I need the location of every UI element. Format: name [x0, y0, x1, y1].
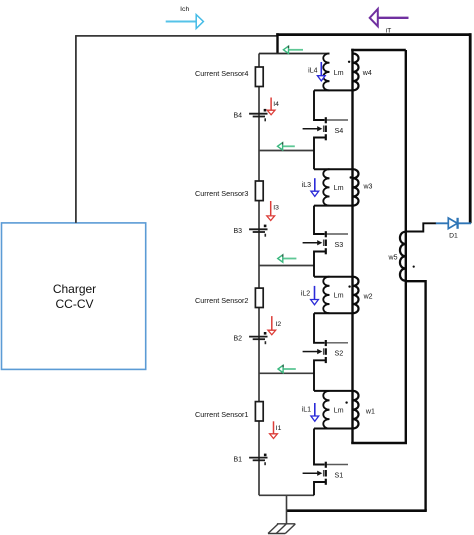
svg-text:w1: w1 — [365, 408, 375, 415]
transistor S3 gate/body arrow — [303, 240, 323, 245]
arrow iL3 magnetizing current (blue, down) — [311, 178, 319, 196]
wire module2 top node — [314, 276, 353, 278]
transistor S2 gate bar — [323, 348, 325, 355]
svg-text:Lm: Lm — [334, 293, 344, 300]
arrow iL1 magnetizing current (blue, down) — [311, 403, 319, 421]
wire top tap B4+ to Lm4 — [259, 53, 330, 55]
wire bottom ground rail — [287, 509, 427, 512]
wire transformer primary bus (w4..w1 stack) — [351, 49, 353, 443]
transistor S3 channel bar — [325, 231, 327, 254]
battery B3 — [249, 225, 267, 237]
transistor S1 gate/body arrow — [303, 471, 323, 476]
wire w5 bottom to ground drop — [406, 281, 426, 511]
svg-text:Lm: Lm — [334, 70, 344, 77]
transistor S2 channel bar — [325, 340, 327, 363]
arrow I3 cell current (red) — [267, 201, 275, 221]
current sensor CS3 — [255, 181, 263, 201]
transistor S1 drain stub — [327, 464, 348, 466]
wire S4 drain lead — [314, 90, 325, 120]
transistor S2 gate/body arrow — [303, 349, 323, 354]
wire top rail thin left segment — [75, 35, 277, 37]
arrow module1 branch current (green, points left) — [278, 365, 296, 373]
transistor S4 gate bar — [323, 126, 325, 133]
arrow module3 branch current (green, points left) — [278, 142, 295, 150]
ground symbol — [268, 524, 295, 534]
arrow iL2 magnetizing current (blue, down) — [311, 286, 319, 305]
svg-text:w4: w4 — [362, 70, 372, 77]
wire battery stack bus — [258, 54, 260, 496]
svg-text:iL3: iL3 — [302, 182, 311, 189]
svg-text:I3: I3 — [273, 204, 279, 211]
battery B4 — [249, 109, 267, 121]
polarity dot w1 — [345, 401, 347, 403]
current sensor CS2 — [255, 288, 263, 307]
wire Lm1 bottom to w1 bottom — [314, 428, 353, 430]
wire drop from top rail to battery top tap — [276, 33, 278, 53]
arrow module2 branch current (green, points left) — [278, 255, 297, 263]
svg-text:Charger: Charger — [53, 282, 96, 296]
polarity dot w4 — [348, 61, 350, 63]
wire w5 branch vertical upper — [405, 50, 407, 232]
svg-text:S3: S3 — [335, 240, 344, 249]
wire bottom rail battery- to S1 source — [259, 494, 314, 496]
winding w5 loops — [400, 232, 406, 281]
svg-text:I1: I1 — [276, 425, 282, 432]
svg-text:Current Sensor1: Current Sensor1 — [195, 410, 249, 419]
wire module1 top node — [314, 390, 353, 392]
wire w5 core line — [405, 232, 407, 443]
svg-text:Ich: Ich — [180, 6, 189, 13]
svg-text:Current Sensor2: Current Sensor2 — [195, 296, 249, 305]
wire top of winding bus to w5 branch — [351, 49, 406, 52]
svg-text:D1: D1 — [449, 233, 458, 240]
wire w5 top step to diode — [406, 223, 436, 231]
battery B1 — [249, 454, 267, 466]
svg-text:Lm: Lm — [334, 407, 344, 414]
transistor S4 gate/body arrow — [303, 126, 323, 131]
wire ground stem — [286, 495, 288, 524]
wire S2 drain lead — [314, 313, 325, 343]
arrow iL4 magnetizing current (blue, down) — [317, 62, 325, 81]
wire S3 drain lead — [314, 206, 325, 234]
arrow I1 cell current (red) — [270, 421, 278, 438]
arrow I4 cell current (red) — [267, 98, 275, 115]
svg-text:B4: B4 — [233, 112, 242, 119]
transistor S4 drain stub — [327, 119, 348, 121]
charger U1 Charger CC-CV box — [2, 223, 146, 370]
svg-text:iT: iT — [386, 28, 392, 35]
svg-text:B2: B2 — [233, 335, 242, 342]
arrow iT transformer current (purple, points left) — [370, 9, 409, 26]
svg-text:B1: B1 — [233, 456, 242, 463]
wire S1 drain lead — [314, 429, 325, 465]
winding w4 loops on transformer bus — [353, 54, 359, 91]
svg-text:Current Sensor3: Current Sensor3 — [195, 189, 249, 198]
diode D1 (blue) — [436, 218, 471, 229]
winding w2 loops on transformer bus — [353, 277, 359, 314]
arrow module4 branch current (green, points left) — [283, 46, 303, 54]
transistor S1 gate bar — [323, 470, 325, 477]
svg-text:w3: w3 — [363, 183, 373, 190]
arrow I2 cell current (red) — [268, 316, 276, 335]
current sensor CS1 — [255, 402, 263, 421]
wire winding bus bottom L — [351, 442, 407, 445]
transistor S3 gate bar — [323, 240, 325, 247]
svg-text:I2: I2 — [276, 321, 282, 328]
transistor S4 channel bar — [325, 117, 327, 140]
svg-text:iL2: iL2 — [301, 290, 310, 297]
inductor Lm3 loops — [323, 169, 329, 205]
svg-text:iL4: iL4 — [308, 68, 317, 75]
winding w1 loops on transformer bus — [353, 391, 359, 429]
wire Lm3 bottom to w3 bottom — [314, 205, 353, 207]
wire S1 source lead down to bottom rail — [314, 482, 326, 495]
wire tap node2 — [259, 265, 314, 267]
svg-text:CC-CV: CC-CV — [56, 297, 94, 311]
svg-text:B3: B3 — [233, 228, 242, 235]
polarity dot w5 — [413, 266, 415, 268]
polarity dot w3 — [350, 176, 352, 178]
wire S3 source lead down to node2 — [314, 252, 326, 277]
svg-text:w2: w2 — [363, 293, 373, 300]
svg-text:S2: S2 — [335, 349, 344, 358]
arrow Ich charging current (cyan, points right) — [166, 15, 204, 29]
wire Lm2 bottom to w2 bottom — [314, 312, 353, 314]
inductor Lm4 loops — [323, 54, 329, 91]
wire S4 source lead down to node3 — [314, 138, 326, 170]
inductor Lm1 loops — [323, 391, 329, 429]
current sensor CS4 — [255, 67, 263, 87]
transistor S1 channel bar — [325, 462, 327, 485]
wire S2 source lead down to node1 — [314, 360, 326, 391]
battery B2 — [249, 332, 267, 344]
wire Lm4 bottom to w4 bottom — [314, 89, 353, 91]
wire module3 top node — [314, 168, 353, 170]
wire charger positive lead — [75, 36, 77, 223]
polarity dot w2 — [348, 285, 350, 287]
svg-text:Current Sensor4: Current Sensor4 — [195, 69, 249, 78]
svg-text:S1: S1 — [335, 470, 344, 479]
wire top rail thick segment — [276, 33, 471, 36]
svg-text:iL1: iL1 — [302, 406, 311, 413]
inductor Lm2 loops — [323, 277, 329, 314]
wire right vertical bus to diode — [469, 33, 472, 223]
svg-text:Lm: Lm — [334, 185, 344, 192]
wire tap node3 — [259, 150, 314, 152]
svg-text:I4: I4 — [273, 101, 279, 108]
svg-text:S4: S4 — [335, 126, 344, 135]
transistor S2 drain stub — [327, 342, 348, 344]
svg-text:w5: w5 — [388, 255, 398, 262]
transistor S3 drain stub — [327, 233, 348, 235]
wire tap node1 — [259, 372, 314, 374]
winding w3 loops on transformer bus — [353, 169, 359, 205]
